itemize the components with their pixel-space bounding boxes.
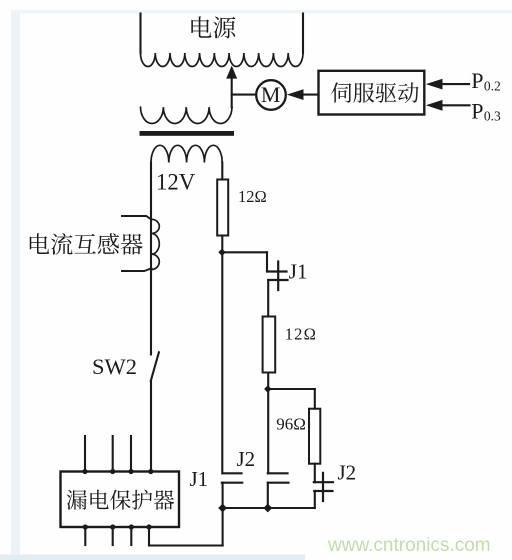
svg-text:96Ω: 96Ω — [276, 415, 306, 434]
relay contact J1 upper plates — [267, 262, 288, 291]
wire LP top stub 1 — [84, 436, 86, 472]
junction node B — [264, 385, 271, 392]
servo drive box U1 — [319, 71, 425, 115]
wire J1 to R2 — [267, 280, 269, 317]
current transformer CT winding — [152, 219, 160, 269]
LP terminal dot 7 — [129, 524, 134, 529]
wire LP terminal 4 bottom — [148, 527, 150, 546]
wire bottom bus — [223, 507, 315, 509]
wire LP bottom stub 2 — [112, 527, 114, 545]
LP terminal dot 5 — [83, 524, 88, 529]
wire return loop horizontal — [149, 544, 223, 546]
junction node D — [263, 504, 272, 513]
LP terminal dot 3 — [128, 469, 133, 474]
svg-text:J2: J2 — [237, 447, 256, 471]
svg-text:SW2: SW2 — [92, 354, 137, 379]
variac wiper arrow shaft — [231, 77, 233, 108]
svg-text:J2: J2 — [338, 461, 357, 485]
svg-text:0.3: 0.3 — [484, 109, 501, 124]
wire J1 corner drop — [266, 252, 268, 271]
wire right top vertical — [302, 14, 304, 53]
LP terminal dot 4 — [148, 469, 153, 474]
wire 96ohm bottom lead — [314, 464, 316, 483]
wire wiper to motor — [232, 94, 257, 96]
wire R1 bottom to J1b contact — [221, 236, 223, 474]
svg-text:12Ω: 12Ω — [285, 324, 317, 343]
svg-text:J1: J1 — [289, 259, 308, 283]
resistor R2 12ohm body — [263, 317, 276, 373]
variac T1 primary bottom winding — [141, 107, 232, 123]
relay contact J1b plates — [222, 473, 242, 482]
LP terminal dot 2 — [110, 469, 115, 474]
transformer T2 secondary winding 12V — [151, 145, 222, 162]
LP terminal dot 1 — [82, 469, 87, 474]
arrowhead into motor — [287, 89, 304, 100]
label current transformer 电流互感器 — [30, 233, 143, 255]
leakage protector box — [61, 472, 180, 528]
LP terminal dot 8 — [146, 524, 151, 529]
wire 96ohm top lead — [314, 389, 316, 409]
wire LP top stub 2 — [112, 436, 114, 472]
svg-text:P: P — [471, 68, 483, 93]
svg-text:J1: J1 — [190, 467, 209, 491]
arrowhead P0.2 — [426, 79, 443, 90]
wire J2 right to bottom bus — [314, 491, 316, 508]
svg-text:M: M — [261, 82, 281, 107]
label leakage protector 漏电保护器 — [67, 490, 175, 510]
wire LP top stub 3 — [130, 436, 132, 472]
wire node B branch to 96ohm — [268, 388, 315, 390]
wire main left conductor lower — [150, 381, 152, 472]
wire CT terminal top — [122, 216, 152, 220]
LP terminal dot 6 — [110, 524, 115, 529]
label power source 电源 — [191, 16, 235, 38]
wiper arrowhead — [226, 66, 237, 79]
svg-text:www.cntronics.com: www.cntronics.com — [327, 535, 491, 556]
wire R2 bottom to J2m contact — [267, 373, 269, 474]
svg-text:P: P — [471, 98, 483, 123]
arrow P0.3 line — [442, 104, 470, 106]
switch SW2 blade — [151, 352, 159, 381]
wire secondary right lead — [221, 163, 223, 180]
wire bus down to return loop — [222, 508, 224, 546]
svg-text:0.2: 0.2 — [484, 78, 501, 93]
arrow P0.2 line — [442, 83, 469, 85]
wire LP bottom stub 1 — [84, 527, 86, 545]
wire J1b to bus — [222, 483, 224, 508]
wire LP bottom stub 3 — [130, 527, 132, 545]
wire main left conductor upper — [150, 163, 152, 355]
svg-text:12V: 12V — [156, 170, 196, 195]
wire CT terminal bottom — [122, 268, 152, 271]
variac T1 primary top winding — [141, 53, 303, 67]
wire node A branch to J1 — [222, 251, 267, 253]
wire J2m to bus — [267, 483, 269, 508]
relay contact J2 right plates — [314, 473, 333, 501]
label servo drive 伺服驱动 — [331, 82, 419, 103]
junction node A — [218, 249, 225, 256]
motor M circle — [256, 80, 286, 110]
resistor R3 96ohm body — [309, 409, 320, 464]
wire motor arrow line from servo box — [303, 94, 319, 96]
junction node C — [218, 504, 227, 513]
resistor R1 12ohm body — [217, 180, 228, 236]
wire left top vertical — [139, 14, 141, 54]
transformer core bar — [140, 131, 235, 136]
arrowhead P0.3 — [426, 100, 443, 111]
svg-text:12Ω: 12Ω — [238, 187, 267, 206]
relay contact J2m plates — [268, 473, 289, 482]
